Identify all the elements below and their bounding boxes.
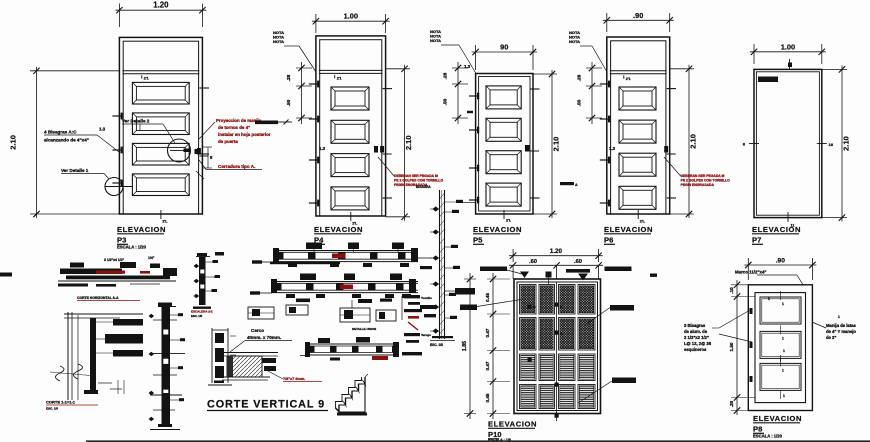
svg-text:2'L: 2'L xyxy=(162,220,168,224)
label ELEVACION P6 xyxy=(604,225,653,245)
door P3 panel 3 xyxy=(132,143,189,165)
door P10 panel r4c3 xyxy=(559,385,576,409)
overall dim 1.85 left of P10 xyxy=(462,273,476,419)
note 4 bisagras left of P3 xyxy=(44,127,119,153)
svg-text:Ver Detalle 1: Ver Detalle 1 xyxy=(61,168,89,173)
door P10 panel r4c1 xyxy=(520,385,537,409)
svg-text:NOTA: NOTA xyxy=(273,39,284,44)
door P10 panel r1c1 xyxy=(520,285,537,315)
door P10 center stile xyxy=(556,282,558,411)
svg-text:40mm. x 70mm.: 40mm. x 70mm. xyxy=(247,335,281,340)
vertical mullion section detail D xyxy=(191,253,220,318)
dimension .90 over P6 xyxy=(603,11,674,32)
door P5 panel 3 xyxy=(486,151,521,174)
horizontal section detail A xyxy=(0,256,177,301)
svg-text:1: 1 xyxy=(783,349,785,353)
svg-text:Cerco: Cerco xyxy=(251,328,264,333)
leader from NOTA to P4 xyxy=(284,46,316,72)
door P10 node squares xyxy=(528,303,564,422)
door P10 panel r1c3 xyxy=(559,285,576,315)
door P3 transom bottom rail xyxy=(122,71,199,81)
svg-text:ESCALA : 1/20: ESCALA : 1/20 xyxy=(117,245,147,250)
svg-text:.90: .90 xyxy=(776,258,785,265)
svg-text:DEBERAN SER PEGADA M: DEBERAN SER PEGADA M xyxy=(681,174,725,178)
dimension 2.10 right of P4 xyxy=(386,65,413,221)
door P10 panel r4c2 xyxy=(539,385,555,409)
svg-text:P8: P8 xyxy=(753,425,762,434)
door P4 panel 1 xyxy=(331,87,369,110)
svg-text:Marco 11/2"x4": Marco 11/2"x4" xyxy=(735,270,767,275)
door P5 panel 2 xyxy=(486,118,521,141)
door P6 panel 1 xyxy=(619,87,656,110)
door P6 bottom center mark xyxy=(638,210,645,224)
door P5 lock xyxy=(525,145,539,152)
note Ver Detalle 2 with circle xyxy=(122,119,191,163)
door P4 panel 3 xyxy=(331,154,369,177)
door P8 panel 1 xyxy=(760,291,801,324)
svg-text:2.10: 2.10 xyxy=(842,136,851,151)
svg-text:.10: .10 xyxy=(729,287,734,294)
svg-text:3 Bisagras: 3 Bisagras xyxy=(684,323,706,328)
door P4 hinge marks xyxy=(309,81,319,207)
svg-text:P5: P5 xyxy=(473,236,483,245)
svg-text:4 Bisagras A:C: 4 Bisagras A:C xyxy=(44,130,77,135)
svg-text:1.85: 1.85 xyxy=(462,341,468,351)
dimension .90 over P8 xyxy=(744,258,816,281)
lock side dims P3 xyxy=(195,147,214,179)
door P3 hinge marks xyxy=(112,113,122,187)
door P4 transom bottom rail xyxy=(319,70,383,80)
door P4 outer frame xyxy=(316,36,386,216)
left dim chain P4 (.28/.50) xyxy=(286,62,326,151)
door P4 panel 4 xyxy=(331,187,369,210)
svg-text:1: 1 xyxy=(783,394,785,398)
frame section detail F xyxy=(208,328,236,385)
svg-text:Ver Detalle 2: Ver Detalle 2 xyxy=(122,119,150,124)
door P3 right frame dashes xyxy=(199,88,209,154)
door P7 plain leaf xyxy=(754,69,822,217)
maroon note right of P4 xyxy=(374,146,443,187)
svg-text:2'1: 2'1 xyxy=(144,77,149,81)
title CORTE VERTICAL 9 xyxy=(207,399,328,411)
maroon note right of P6 xyxy=(664,157,730,187)
svg-text:P7: P7 xyxy=(752,236,761,245)
svg-text:1.20: 1.20 xyxy=(153,1,169,10)
svg-text:.20: .20 xyxy=(729,400,734,407)
svg-text:.50: .50 xyxy=(286,99,292,106)
dimension 1.00 over P4 xyxy=(312,12,390,33)
door P6 outer frame xyxy=(607,37,670,214)
door P4 right frame dashes xyxy=(383,89,392,198)
door P8 panel 2 xyxy=(760,325,801,358)
svg-text:DETALLE UNION: DETALLE UNION xyxy=(352,327,376,331)
svg-text:NOTA: NOTA xyxy=(430,38,441,43)
svg-text:.60: .60 xyxy=(574,259,582,265)
door P5 bottom mark xyxy=(504,210,512,223)
svg-text:90: 90 xyxy=(500,43,508,52)
svg-text:DEBERAN SER PEGADA M: DEBERAN SER PEGADA M xyxy=(394,174,438,178)
door P10 panel r2c1 xyxy=(520,318,537,351)
door P6 hinge marks xyxy=(600,81,610,207)
svg-text:0.47: 0.47 xyxy=(485,328,490,337)
note proyeccion (maroon) right of P3 xyxy=(199,118,271,144)
door P7 center marks xyxy=(743,59,834,228)
note Ver Detalle 1 with circle xyxy=(61,168,133,196)
svg-text:.28: .28 xyxy=(286,74,292,81)
svg-text:1.3: 1.3 xyxy=(319,146,326,151)
door P6 panel 2 xyxy=(619,120,656,143)
svg-text:ELEVACION: ELEVACION xyxy=(117,225,166,234)
door P10 panel r3c3 xyxy=(559,354,576,381)
NOTA block left of P5 xyxy=(430,29,441,43)
svg-text:1.00: 1.00 xyxy=(781,42,795,51)
note cerradura tipo A (maroon) xyxy=(199,160,262,170)
svg-text:2'1: 2'1 xyxy=(337,76,342,80)
svg-text:de puerta: de puerta xyxy=(218,139,238,144)
svg-text:2'L: 2'L xyxy=(640,220,646,224)
svg-text:1: 1 xyxy=(838,315,840,319)
small note far left of P6 xyxy=(560,182,578,187)
door P3 panel 4 xyxy=(132,174,189,196)
svg-text:1: 1 xyxy=(782,302,784,306)
door P10 panel r3c1 xyxy=(520,354,537,381)
vertical jamb section detail E xyxy=(416,185,476,347)
lintel horizontal section H2 xyxy=(250,274,418,303)
label ELEVACION P10 xyxy=(488,420,537,440)
svg-text:2.10: 2.10 xyxy=(9,135,18,150)
svg-text:CORTE VERTICAL 9: CORTE VERTICAL 9 xyxy=(207,399,325,411)
svg-text:1.00: 1.00 xyxy=(344,12,358,21)
svg-text:.50: .50 xyxy=(443,98,449,105)
door P3 bottom center mark xyxy=(161,210,168,224)
label ELEVACION P4 xyxy=(314,225,363,245)
svg-text:2'L: 2'L xyxy=(506,219,512,223)
dimension 1.20 over P10 xyxy=(509,248,602,262)
svg-text:CORTE HORIZONTAL A-A: CORTE HORIZONTAL A-A xyxy=(77,296,119,300)
svg-text:Cerradura tipo A.: Cerradura tipo A. xyxy=(218,164,255,169)
door P6 transom bottom rail xyxy=(610,71,667,81)
svg-text:CORTE 1-1=1-1: CORTE 1-1=1-1 xyxy=(46,400,76,405)
svg-text:ELEVACION: ELEVACION xyxy=(488,420,537,429)
door P6 right frame dashes xyxy=(667,89,676,198)
door P3 outer frame xyxy=(119,37,202,214)
lintel horizontal section H1 xyxy=(215,243,432,270)
door P10 panel r3c4 xyxy=(578,354,595,381)
door P8 center marks xyxy=(768,297,785,399)
svg-text:1.20: 1.20 xyxy=(550,248,563,255)
svg-text:.28: .28 xyxy=(577,74,583,81)
svg-text:1: 1 xyxy=(782,368,784,372)
svg-text:1.3: 1.3 xyxy=(609,146,616,151)
svg-text:ELEVACION: ELEVACION xyxy=(752,225,801,234)
door P5 right frame dashes xyxy=(530,89,540,198)
door P6 lock xyxy=(664,146,676,154)
svg-text:1.50: 1.50 xyxy=(729,342,734,351)
svg-text:de 2": de 2" xyxy=(826,335,836,340)
leader NOTA to P5 xyxy=(441,45,476,74)
svg-text:de 4" Y manejo: de 4" Y manejo xyxy=(826,329,856,334)
dimension 2.10 right of P6 xyxy=(670,65,698,218)
svg-text:ESCALA : 1/20: ESCALA : 1/20 xyxy=(753,434,783,439)
door P8 hinge marks xyxy=(750,308,753,382)
svg-text:2 1/2"x2 1/2": 2 1/2"x2 1/2" xyxy=(684,335,709,340)
door P8 frame xyxy=(748,285,812,411)
svg-text:esquineros: esquineros xyxy=(684,347,707,352)
door P8 panel 3 xyxy=(760,357,801,390)
door P3 lock xyxy=(197,148,209,156)
svg-text:alcanzando de 4"x4": alcanzando de 4"x4" xyxy=(44,138,89,143)
label ELEVACION P5 xyxy=(473,225,522,245)
door P5 panel 1 xyxy=(486,86,521,109)
fastener notes cluster xyxy=(402,295,432,355)
NOTA block left of P6 xyxy=(569,30,580,44)
svg-text:2'1: 2'1 xyxy=(626,77,631,81)
svg-text:1/4": 1/4" xyxy=(148,256,155,260)
door P7 closer block xyxy=(758,77,778,83)
svg-text:de alum. de: de alum. de xyxy=(684,329,708,334)
dimension 1.00 over P7 xyxy=(750,42,826,64)
svg-text:0.45: 0.45 xyxy=(485,393,490,402)
cerco 40x70 detail xyxy=(220,328,322,382)
note marco over P8 xyxy=(735,270,803,285)
svg-text:2.10: 2.10 xyxy=(689,134,698,149)
svg-text:ELEVACION: ELEVACION xyxy=(604,225,653,234)
svg-text:.90: .90 xyxy=(633,11,643,20)
svg-text:PE 2 GOLPES CON TORNILLO: PE 2 GOLPES CON TORNILLO xyxy=(681,179,730,183)
door P4 panel 2 xyxy=(331,120,369,143)
svg-text:18: 18 xyxy=(829,142,834,147)
side reference bars P10 top xyxy=(480,267,632,285)
dimension 1.20 over P3 xyxy=(115,1,206,27)
side reference bars P10 middle xyxy=(460,300,636,404)
svg-text:instalar en hoja posterior: instalar en hoja posterior xyxy=(218,132,271,137)
svg-text:ELEVACION: ELEVACION xyxy=(473,225,522,234)
door P5 panel 4 xyxy=(486,183,521,206)
svg-text:7/8"x7 6mm.: 7/8"x7 6mm. xyxy=(283,377,305,381)
door P4 lock xyxy=(380,146,392,154)
svg-text:ESC. 1/5: ESC. 1/5 xyxy=(191,314,203,318)
door P6 panel 4 xyxy=(619,186,656,209)
note 3 bisagras left of P8 xyxy=(684,310,752,352)
label ELEVACION P3 xyxy=(117,225,166,250)
small black note row under P4 left xyxy=(255,120,292,125)
svg-text:2.10: 2.10 xyxy=(404,135,413,150)
svg-text:L@ 12, 2@ 38: L@ 12, 2@ 38 xyxy=(684,341,712,346)
svg-text:3 1/2"x4 1/2": 3 1/2"x4 1/2" xyxy=(104,258,125,262)
dimension 2.10 right of P7 xyxy=(822,65,851,221)
door P4 bottom center mark xyxy=(351,212,358,226)
svg-text:0.47: 0.47 xyxy=(485,361,490,370)
svg-text:PEGIN ENGRASADA: PEGIN ENGRASADA xyxy=(681,183,715,187)
door P5 elevation (no transom) xyxy=(476,74,533,215)
dimension 90 over P5 xyxy=(472,43,537,71)
svg-text:.50: .50 xyxy=(577,99,583,106)
door P10 panel r1c2 xyxy=(539,285,555,315)
stray black dash left of P8 xyxy=(650,274,657,277)
svg-text:ESC. 1/5: ESC. 1/5 xyxy=(430,343,443,347)
left dim chain P6 xyxy=(577,62,616,151)
wall section detail B (corte 1-1) xyxy=(46,312,143,411)
svg-text:P6: P6 xyxy=(604,236,613,245)
door P6 panel 3 xyxy=(619,153,656,176)
svg-text:Tarugo: Tarugo xyxy=(421,333,431,337)
corner moulding stepped detail xyxy=(336,374,369,416)
label ELEVACION P7 xyxy=(752,225,801,245)
svg-text:de tornos de 4": de tornos de 4" xyxy=(218,125,250,130)
svg-text:.28: .28 xyxy=(443,72,449,79)
door P3 panel 2 xyxy=(132,113,189,135)
svg-text:ELEVACION: ELEVACION xyxy=(314,225,363,234)
door P10 panel r2c4 xyxy=(578,318,595,351)
svg-text:BISAGRA: BISAGRA xyxy=(416,185,431,189)
leader NOTA to P6 xyxy=(580,46,607,72)
svg-text:1: 1 xyxy=(782,336,784,340)
dimension 2.10 right of P5 xyxy=(533,70,561,218)
NOTA block left of P4 xyxy=(273,30,284,44)
door P10 panel r4c4 xyxy=(578,385,595,409)
svg-text:0.45: 0.45 xyxy=(485,293,490,302)
frame pieces cluster center xyxy=(248,299,436,331)
svg-text:A: A xyxy=(575,183,578,187)
door P10 panel r2c3 xyxy=(559,318,576,351)
svg-text:Proyeccion de manija: Proyeccion de manija xyxy=(216,118,262,123)
svg-text:Manija de latas: Manija de latas xyxy=(826,323,856,328)
left dim chain P10 (0.45/0.47/0.47/0.45) xyxy=(485,273,510,419)
sheet bottom border (cropped) xyxy=(86,440,870,442)
svg-text:1.3: 1.3 xyxy=(99,127,106,132)
label ELEVACION P8 xyxy=(753,414,802,439)
svg-text:ESC. 1/5: ESC. 1/5 xyxy=(46,407,58,411)
svg-text:PE 2 GOLPES CON TORNILLO: PE 2 GOLPES CON TORNILLO xyxy=(394,179,443,183)
svg-text:P3: P3 xyxy=(117,236,126,245)
left dim chain P8 (.10/1.50/.20) xyxy=(729,280,755,415)
note manija right of P8 xyxy=(812,315,856,340)
left dim chain P5 xyxy=(443,62,474,124)
door P3 panel 1 xyxy=(132,82,189,104)
svg-text:.60: .60 xyxy=(529,259,537,265)
door P5 hinges xyxy=(469,93,479,204)
door P10 panel r2c2 xyxy=(539,318,555,351)
svg-text:Tornillo: Tornillo xyxy=(421,296,432,300)
dimension 2.10 left of P3 xyxy=(9,67,120,218)
sill horizontal member center xyxy=(300,337,399,361)
door P10 panel r3c2 xyxy=(539,354,555,381)
door P10 panel r1c4 xyxy=(578,285,595,315)
svg-text:1: 1 xyxy=(768,297,770,301)
svg-text:2.10: 2.10 xyxy=(552,137,561,152)
dimensions .60 .60 over P10 xyxy=(509,259,603,279)
escala under P10 xyxy=(488,438,511,442)
svg-text:ELEVACION: ELEVACION xyxy=(753,414,802,423)
door P10 outer frame xyxy=(514,279,601,414)
vertical jamb section detail C xyxy=(149,303,186,430)
svg-text:NOTA: NOTA xyxy=(569,39,580,44)
